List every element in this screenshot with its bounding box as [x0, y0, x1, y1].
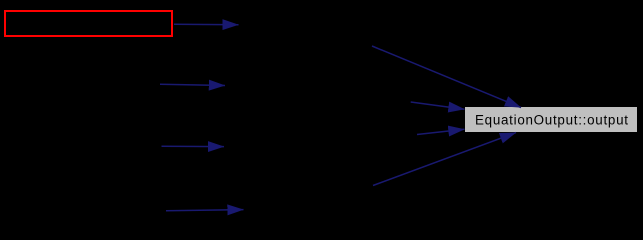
svg-text:EquationOutput::output: EquationOutput::output	[475, 112, 628, 127]
